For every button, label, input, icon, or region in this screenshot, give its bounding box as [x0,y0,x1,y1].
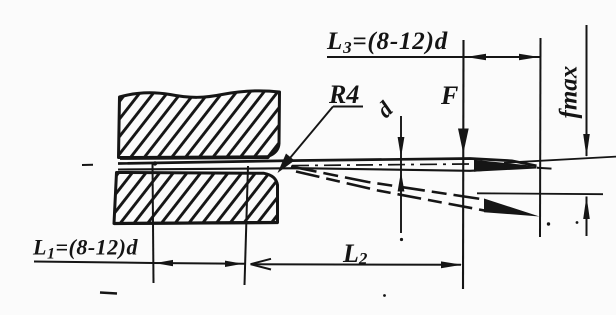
svg-text:L2: L2 [342,239,368,268]
svg-text:L1=(8-12)d: L1=(8-12)d [32,235,138,263]
svg-text:R4: R4 [328,80,359,109]
svg-text:d: d [372,96,398,122]
svg-text:fmax: fmax [556,66,583,119]
svg-text:F: F [440,81,458,110]
svg-text:L3=(8-12)d: L3=(8-12)d [326,28,448,57]
